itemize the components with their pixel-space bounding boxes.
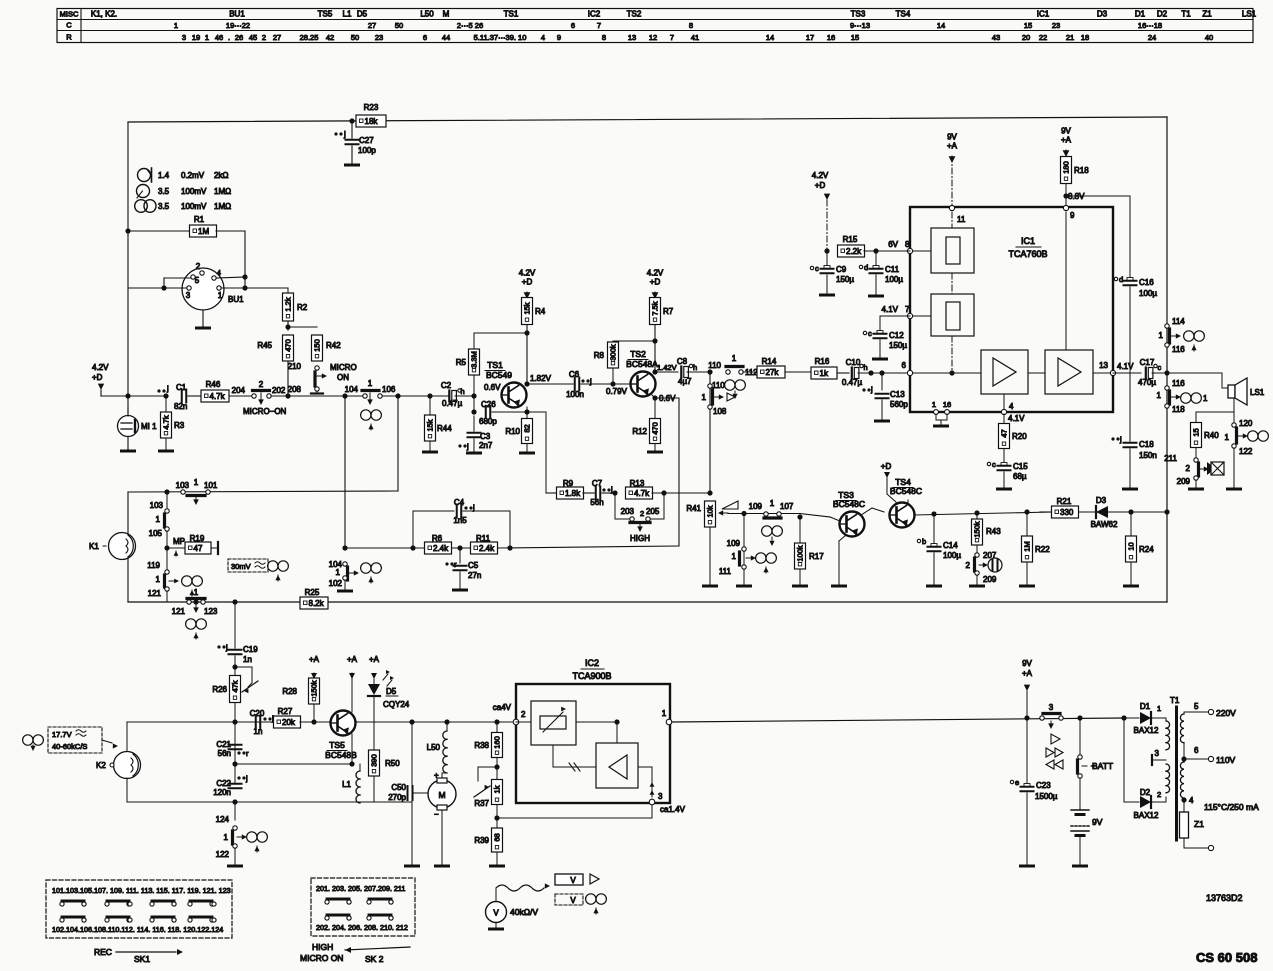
- svg-text:1k: 1k: [820, 369, 829, 378]
- svg-text:1.42V: 1.42V: [657, 363, 677, 372]
- svg-text:50: 50: [351, 33, 359, 42]
- svg-text:C18: C18: [1139, 440, 1154, 449]
- svg-text:+D: +D: [522, 278, 533, 287]
- svg-text:3: 3: [1049, 703, 1054, 712]
- svg-text:20k: 20k: [282, 718, 296, 727]
- svg-text:4.1V: 4.1V: [1117, 362, 1134, 371]
- svg-text:11: 11: [957, 215, 966, 224]
- svg-text:+D: +D: [92, 373, 103, 382]
- svg-text:D3: D3: [1097, 10, 1108, 19]
- svg-text:R19: R19: [190, 534, 205, 543]
- svg-text:6: 6: [571, 21, 575, 30]
- svg-text:4.7k: 4.7k: [634, 489, 650, 498]
- svg-text:116: 116: [1172, 345, 1185, 354]
- svg-text:118: 118: [1172, 405, 1185, 414]
- svg-text:4: 4: [217, 270, 221, 277]
- svg-text:14: 14: [766, 33, 774, 42]
- svg-text:D1: D1: [1135, 10, 1146, 19]
- svg-text:3: 3: [1155, 749, 1160, 758]
- svg-text:1MΩ: 1MΩ: [214, 187, 231, 196]
- svg-text:123: 123: [204, 607, 218, 616]
- svg-text:150: 150: [313, 339, 322, 352]
- svg-text:3.5: 3.5: [158, 187, 170, 196]
- svg-text:41: 41: [691, 33, 699, 42]
- svg-text:45: 45: [249, 33, 257, 42]
- svg-text:1n5: 1n5: [453, 516, 467, 525]
- svg-text:C17: C17: [1140, 358, 1155, 367]
- svg-text:b: b: [922, 537, 926, 546]
- svg-text:40: 40: [1205, 33, 1213, 42]
- svg-text:16: 16: [827, 33, 835, 42]
- svg-text:C19: C19: [243, 645, 258, 654]
- svg-text:BC548C: BC548C: [890, 486, 922, 496]
- svg-text:LS1: LS1: [1250, 388, 1265, 397]
- svg-text:V: V: [570, 876, 576, 885]
- svg-text:1: 1: [218, 291, 223, 300]
- svg-text:TS1: TS1: [487, 360, 503, 370]
- svg-text:4.1V: 4.1V: [882, 305, 899, 314]
- svg-text:R7: R7: [663, 307, 674, 316]
- svg-text:2: 2: [1186, 464, 1191, 473]
- svg-text:TCA900B: TCA900B: [572, 671, 611, 681]
- svg-text:270p: 270p: [388, 793, 406, 802]
- svg-text:R37: R37: [474, 799, 489, 808]
- svg-text:K1, K2.: K1, K2.: [91, 10, 117, 19]
- svg-text:R39: R39: [474, 836, 489, 845]
- svg-text:+A: +A: [1061, 136, 1072, 145]
- svg-text:R24: R24: [1139, 545, 1154, 554]
- svg-text:C14: C14: [943, 541, 958, 550]
- svg-text:R25: R25: [305, 588, 320, 597]
- svg-text:5: 5: [195, 276, 200, 285]
- svg-text:C12: C12: [889, 331, 904, 340]
- svg-text:R1: R1: [194, 215, 205, 224]
- svg-text:0.79V: 0.79V: [606, 387, 628, 396]
- svg-text:TS5: TS5: [329, 740, 345, 750]
- svg-text:100n: 100n: [566, 390, 584, 399]
- svg-text:1: 1: [732, 354, 737, 363]
- svg-text:R10: R10: [505, 427, 520, 436]
- svg-text:4.2V: 4.2V: [519, 269, 536, 278]
- svg-text:9V: 9V: [1022, 659, 1032, 668]
- svg-text:205: 205: [646, 507, 660, 516]
- svg-text:D2: D2: [1157, 10, 1168, 19]
- svg-text:4: 4: [1009, 402, 1014, 411]
- svg-text:15k: 15k: [426, 419, 435, 431]
- svg-text:1: 1: [224, 833, 229, 842]
- svg-text:TCA760B: TCA760B: [1008, 249, 1047, 259]
- svg-text:R14: R14: [762, 357, 777, 366]
- svg-text:150µ: 150µ: [836, 275, 854, 284]
- svg-text:0.6V: 0.6V: [484, 383, 501, 392]
- svg-text:C4: C4: [454, 498, 465, 507]
- svg-text:470: 470: [651, 422, 660, 435]
- svg-text:D3: D3: [1096, 496, 1107, 505]
- svg-text:211: 211: [1164, 454, 1177, 463]
- svg-text:K2: K2: [96, 761, 106, 770]
- svg-text:470: 470: [284, 339, 293, 352]
- svg-text:109: 109: [749, 502, 763, 511]
- svg-text:8: 8: [689, 21, 693, 30]
- svg-text:T1: T1: [1170, 696, 1180, 705]
- svg-text:c: c: [1158, 363, 1162, 372]
- svg-text:R17: R17: [809, 552, 824, 561]
- svg-text:330: 330: [1060, 508, 1074, 517]
- svg-text:R38: R38: [474, 741, 489, 750]
- svg-text:1: 1: [1157, 704, 1161, 713]
- svg-text:R45: R45: [257, 341, 272, 350]
- svg-text:3.3M: 3.3M: [470, 351, 479, 368]
- svg-text:106: 106: [382, 385, 396, 394]
- svg-text:40-60kC/S: 40-60kC/S: [52, 742, 87, 751]
- svg-text:56n: 56n: [218, 749, 231, 758]
- svg-text:28.25: 28.25: [300, 33, 319, 42]
- svg-text:6V: 6V: [888, 240, 898, 249]
- svg-text:R6: R6: [432, 534, 443, 543]
- svg-text:1: 1: [732, 552, 737, 561]
- svg-text:27: 27: [368, 21, 376, 30]
- svg-text:R13: R13: [630, 479, 645, 488]
- svg-text:15k: 15k: [523, 302, 532, 314]
- svg-text:1MΩ: 1MΩ: [214, 202, 231, 211]
- svg-text:2: 2: [1157, 790, 1161, 799]
- svg-text:e: e: [1015, 778, 1019, 787]
- svg-text:114: 114: [1172, 317, 1185, 326]
- svg-text:Z1: Z1: [1194, 819, 1204, 829]
- svg-text:TS1: TS1: [504, 10, 519, 19]
- svg-text:4µ7: 4µ7: [678, 377, 692, 386]
- svg-text:C26: C26: [481, 400, 496, 409]
- svg-text:56n: 56n: [590, 498, 603, 507]
- svg-text:TS3: TS3: [851, 10, 866, 19]
- svg-text:17: 17: [806, 33, 814, 42]
- svg-text:4.7k: 4.7k: [210, 392, 226, 401]
- svg-text:h: h: [864, 363, 868, 372]
- svg-text:7: 7: [670, 33, 674, 42]
- svg-text:+A: +A: [347, 655, 358, 664]
- svg-text:2: 2: [521, 710, 526, 719]
- svg-text:109: 109: [727, 539, 741, 548]
- svg-text:2n7: 2n7: [479, 441, 493, 450]
- svg-text:30mV: 30mV: [231, 562, 251, 571]
- svg-text:4.1V: 4.1V: [1008, 414, 1025, 423]
- svg-text:1: 1: [368, 379, 373, 388]
- svg-text:18k: 18k: [365, 117, 379, 126]
- svg-text:MI 1: MI 1: [141, 422, 157, 431]
- svg-text:R44: R44: [437, 424, 452, 433]
- svg-text:4.2V: 4.2V: [92, 363, 109, 372]
- svg-text:j: j: [870, 385, 873, 394]
- svg-text:4.2V: 4.2V: [647, 269, 664, 278]
- svg-text:47k: 47k: [231, 680, 240, 692]
- svg-text:R26: R26: [212, 685, 227, 694]
- svg-text:MICRO−ON: MICRO−ON: [243, 407, 287, 416]
- svg-text:47: 47: [194, 544, 203, 553]
- svg-text:R23: R23: [364, 103, 379, 112]
- svg-text:D2: D2: [1140, 788, 1151, 797]
- svg-text:+A: +A: [947, 142, 958, 151]
- svg-text:R40: R40: [1204, 431, 1219, 440]
- svg-text:100µ: 100µ: [1139, 289, 1157, 298]
- svg-text:C20: C20: [250, 709, 265, 718]
- svg-text:1: 1: [770, 499, 775, 508]
- svg-text:.: .: [228, 33, 230, 42]
- svg-text:HIGH: HIGH: [630, 534, 650, 543]
- svg-text:R9: R9: [563, 479, 574, 488]
- svg-text:15: 15: [1192, 428, 1201, 436]
- svg-text:121: 121: [172, 607, 186, 616]
- svg-text:15: 15: [851, 33, 859, 42]
- svg-text:160: 160: [493, 736, 502, 749]
- svg-text:HIGH: HIGH: [312, 942, 333, 952]
- svg-text:1M: 1M: [1023, 541, 1032, 551]
- svg-text:111: 111: [719, 567, 732, 576]
- svg-text:C: C: [66, 21, 72, 30]
- svg-text:d: d: [864, 263, 868, 272]
- svg-text:1500µ: 1500µ: [1035, 792, 1058, 801]
- svg-text:0.47µ: 0.47µ: [442, 399, 463, 408]
- svg-text:R41: R41: [686, 504, 701, 513]
- svg-text:68: 68: [493, 833, 502, 841]
- svg-text:9: 9: [557, 33, 561, 42]
- svg-text:−: −: [434, 810, 439, 819]
- svg-text:R28: R28: [282, 687, 297, 696]
- svg-text:8: 8: [905, 240, 910, 249]
- svg-text:2: 2: [966, 561, 971, 570]
- svg-text:150k: 150k: [310, 680, 319, 697]
- svg-text:SK1: SK1: [134, 954, 150, 964]
- svg-text:100µ: 100µ: [885, 275, 903, 284]
- svg-text:16: 16: [943, 400, 951, 409]
- svg-text:390: 390: [370, 754, 379, 767]
- svg-text:C13: C13: [890, 390, 905, 399]
- svg-text:1: 1: [1203, 394, 1208, 403]
- svg-text:6: 6: [902, 361, 907, 370]
- svg-text:TS2: TS2: [627, 10, 642, 19]
- svg-text:R43: R43: [986, 527, 1001, 536]
- svg-text:1: 1: [156, 515, 161, 524]
- svg-text:209: 209: [1177, 477, 1191, 486]
- svg-text:150k: 150k: [973, 521, 982, 538]
- svg-text:27: 27: [273, 33, 281, 42]
- svg-text:9V: 9V: [947, 133, 957, 142]
- svg-text:IC2: IC2: [585, 658, 599, 668]
- svg-text:20: 20: [1022, 33, 1030, 42]
- svg-text:ca4V: ca4V: [493, 703, 512, 712]
- svg-text:124: 124: [216, 815, 230, 824]
- svg-text:13763D2: 13763D2: [1206, 893, 1243, 903]
- svg-text:100p: 100p: [358, 146, 376, 155]
- svg-text:R27: R27: [278, 707, 293, 716]
- svg-text:16⋯18: 16⋯18: [1138, 21, 1162, 30]
- svg-text:C3: C3: [480, 432, 491, 441]
- svg-text:26: 26: [235, 33, 243, 42]
- svg-text:1n: 1n: [254, 727, 263, 736]
- svg-text:C23: C23: [1036, 781, 1051, 790]
- svg-text:ca1.4V: ca1.4V: [660, 805, 686, 814]
- svg-text:j: j: [1119, 435, 1122, 444]
- svg-text:10k: 10k: [706, 505, 715, 517]
- svg-text:R5: R5: [456, 358, 467, 367]
- svg-text:100k: 100k: [796, 545, 805, 562]
- svg-text:2: 2: [262, 33, 266, 42]
- svg-text:1: 1: [702, 393, 707, 402]
- svg-text:7: 7: [905, 305, 910, 314]
- svg-text:CQY24: CQY24: [383, 700, 410, 709]
- svg-text:6: 6: [1194, 746, 1199, 755]
- svg-text:17.7V: 17.7V: [52, 730, 72, 739]
- svg-text:680p: 680p: [479, 417, 497, 426]
- svg-text:23: 23: [375, 33, 383, 42]
- svg-text:IC1: IC1: [1037, 10, 1050, 19]
- svg-text:2: 2: [196, 262, 201, 271]
- svg-text:122: 122: [1239, 447, 1253, 456]
- svg-text:R18: R18: [1074, 166, 1089, 175]
- svg-text:LS1: LS1: [1242, 10, 1257, 19]
- svg-text:1k: 1k: [493, 785, 502, 793]
- svg-text:1n: 1n: [243, 655, 252, 664]
- svg-text:R: R: [66, 33, 72, 42]
- svg-text:7: 7: [597, 21, 601, 30]
- svg-text:M: M: [438, 790, 445, 800]
- svg-text:L50: L50: [427, 743, 441, 752]
- svg-text:68µ: 68µ: [1013, 472, 1027, 481]
- svg-text:9V: 9V: [1061, 127, 1071, 136]
- svg-text:BU1: BU1: [228, 295, 244, 304]
- svg-text:C10: C10: [846, 358, 861, 367]
- svg-text:D5: D5: [357, 10, 368, 19]
- svg-text:100mV: 100mV: [181, 202, 207, 211]
- svg-text:+A: +A: [309, 655, 320, 664]
- svg-text:1: 1: [205, 33, 209, 42]
- svg-text:4.2V: 4.2V: [812, 171, 829, 180]
- svg-text:1: 1: [1225, 433, 1230, 442]
- svg-text:22: 22: [1039, 33, 1047, 42]
- svg-text:1M: 1M: [198, 227, 209, 236]
- svg-text:42: 42: [326, 33, 334, 42]
- svg-text:4.7k: 4.7k: [162, 415, 171, 429]
- svg-text:SK 2: SK 2: [365, 954, 384, 964]
- svg-text:9V: 9V: [1092, 817, 1103, 827]
- svg-text:BAX12: BAX12: [1134, 811, 1159, 820]
- svg-text:102: 102: [329, 579, 343, 588]
- svg-text:V: V: [493, 909, 499, 918]
- svg-text:MICRO ON: MICRO ON: [300, 953, 343, 963]
- svg-text:ON: ON: [337, 373, 349, 382]
- svg-text:L1: L1: [342, 780, 351, 789]
- svg-text:C8: C8: [677, 357, 688, 366]
- svg-text:1: 1: [932, 400, 936, 409]
- svg-text:C11: C11: [885, 265, 900, 274]
- svg-text:470µ: 470µ: [1138, 378, 1156, 387]
- svg-text:R4: R4: [535, 307, 546, 316]
- svg-text:0.47µ: 0.47µ: [842, 378, 863, 387]
- svg-text:1: 1: [194, 588, 199, 597]
- svg-text:6: 6: [423, 33, 427, 42]
- svg-text:R20: R20: [1012, 432, 1027, 441]
- svg-text:T1: T1: [1181, 10, 1191, 19]
- svg-text:1: 1: [1159, 331, 1164, 340]
- svg-text:18: 18: [1081, 33, 1089, 42]
- svg-text:M: M: [443, 10, 450, 19]
- svg-text:TS2: TS2: [630, 349, 646, 359]
- svg-text:BU1: BU1: [229, 10, 245, 19]
- svg-text:8: 8: [602, 33, 606, 42]
- svg-text:104: 104: [345, 385, 359, 394]
- svg-text:Z1: Z1: [1202, 10, 1212, 19]
- svg-text:203: 203: [621, 507, 635, 516]
- svg-text:120n: 120n: [213, 788, 231, 797]
- svg-text:C15: C15: [1013, 462, 1028, 471]
- svg-text:R42: R42: [326, 341, 341, 350]
- svg-text:121: 121: [148, 589, 162, 598]
- svg-text:R50: R50: [385, 759, 400, 768]
- svg-text:110V: 110V: [1216, 755, 1236, 765]
- svg-text:8.2k: 8.2k: [309, 599, 325, 608]
- svg-text:102.104.106.108.110.112. 114.: 102.104.106.108.110.112. 114. 116. 118. …: [52, 925, 223, 934]
- svg-text:47: 47: [1000, 429, 1009, 437]
- svg-text:D1: D1: [1140, 702, 1151, 711]
- svg-text:24: 24: [1148, 33, 1156, 42]
- svg-text:c: c: [992, 460, 996, 469]
- svg-text:13: 13: [628, 33, 636, 42]
- svg-text:R46: R46: [206, 380, 221, 389]
- svg-text:101: 101: [204, 481, 218, 490]
- svg-text:560p: 560p: [890, 400, 908, 409]
- svg-text:27n: 27n: [468, 571, 481, 580]
- svg-text:C5: C5: [468, 561, 479, 570]
- svg-text:R21: R21: [1057, 497, 1072, 506]
- svg-text:BC548C: BC548C: [833, 499, 865, 509]
- svg-text:+A: +A: [369, 655, 380, 664]
- svg-text:2.4k: 2.4k: [433, 544, 449, 553]
- svg-text:3: 3: [186, 291, 191, 300]
- svg-text:10: 10: [1127, 542, 1136, 550]
- svg-text:j: j: [166, 384, 169, 393]
- svg-text:1: 1: [1157, 391, 1162, 400]
- svg-text:C2: C2: [441, 381, 452, 390]
- svg-text:BAX12: BAX12: [1134, 726, 1159, 735]
- svg-text:2kΩ: 2kΩ: [214, 171, 228, 180]
- svg-text:CS 60 508: CS 60 508: [1196, 950, 1257, 965]
- svg-text:BATT: BATT: [1092, 761, 1113, 771]
- svg-text:0.2mV: 0.2mV: [181, 171, 205, 180]
- svg-text:122: 122: [216, 850, 230, 859]
- svg-text:19⋯22: 19⋯22: [226, 21, 250, 30]
- svg-text:180: 180: [1062, 161, 1071, 174]
- svg-text:300k: 300k: [609, 344, 618, 361]
- svg-text:4: 4: [1189, 796, 1194, 805]
- svg-text:44: 44: [442, 33, 450, 42]
- svg-text:D5: D5: [386, 687, 397, 696]
- svg-text:82n: 82n: [174, 402, 187, 411]
- svg-text:150µ: 150µ: [889, 341, 907, 350]
- svg-text:103: 103: [176, 481, 190, 490]
- svg-text:1: 1: [174, 21, 178, 30]
- svg-text:V: V: [570, 896, 576, 905]
- svg-text:R12: R12: [632, 427, 647, 436]
- svg-text:+D: +D: [815, 181, 826, 190]
- svg-text:3: 3: [658, 792, 663, 801]
- svg-text:27k: 27k: [766, 368, 780, 377]
- svg-text:h: h: [693, 363, 697, 372]
- svg-text:C9: C9: [836, 265, 847, 274]
- svg-text:4: 4: [541, 33, 545, 42]
- svg-text:MICRO: MICRO: [330, 363, 357, 372]
- svg-text:82: 82: [523, 424, 532, 432]
- svg-text:116: 116: [1172, 379, 1185, 388]
- svg-text:K1: K1: [89, 542, 99, 551]
